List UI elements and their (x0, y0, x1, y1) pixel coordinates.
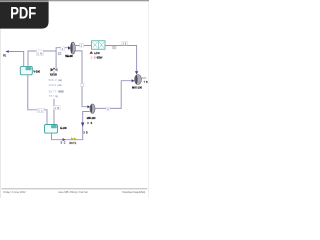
stream label smudge right of cooler (113, 46, 116, 49)
wire V-100 liquid out to E-100 top-left (28, 75, 47, 124)
air cooler AC-100 (92, 41, 106, 49)
stream label box 2 on tee feed (61, 47, 65, 51)
tee TEE-100 (70, 42, 75, 54)
svg-text:36.77: 36.77 (48, 90, 56, 94)
svg-text:577: 577 (49, 94, 54, 98)
wire V-100 vapor out to valve (28, 51, 56, 69)
mixer MIX-100 (135, 75, 142, 85)
svg-text:2L: 2L (38, 110, 43, 113)
svg-text:590.3: 590.3 (49, 78, 57, 82)
stream label box 2M (36, 50, 43, 55)
arrowhead into TEE-100 (68, 46, 71, 49)
svg-text:2B: 2B (55, 107, 60, 110)
valve VLV-100 (51, 68, 58, 72)
arrowhead into MIX-110 upper-left (87, 105, 90, 108)
stream label box 4 (106, 107, 110, 111)
energy stream arrow q-100 (90, 51, 94, 54)
wire TEE-100 top branch to cooler and MIX-100 (75, 46, 136, 72)
PDF badge (0, 0, 49, 29)
arrowhead into MIX-100 left (132, 79, 135, 82)
property table background (48, 76, 67, 99)
svg-text:2E: 2E (123, 43, 127, 46)
svg-text:3B: 3B (87, 122, 92, 125)
page background (0, 0, 149, 198)
wire E-100 outlet recycle to MIX-110 (52, 112, 90, 140)
svg-text:PDF: PDF (10, 4, 36, 23)
page top edge shadow (0, 0, 149, 1)
footer separator line (2, 188, 148, 191)
svg-text:Flowsheet: Case (Main): Flowsheet: Case (Main) (122, 190, 145, 194)
wire FG to V-100 top-left (9, 52, 24, 67)
exchanger E-100 (45, 125, 58, 134)
stream FG feed arrow (5, 50, 8, 53)
arrowhead into MIX-100 top (135, 71, 138, 74)
svg-text:E-100: E-100 (60, 127, 67, 130)
svg-text:MMSCFD: MMSCFD (58, 90, 64, 94)
page left edge (0, 0, 2, 198)
arrow marker on recycle riser (81, 123, 84, 127)
separator V-100 (20, 66, 32, 74)
svg-text:2M: 2M (37, 52, 42, 55)
wire valve outlet down to E-100 (53, 71, 55, 124)
svg-text:VLV-100: VLV-100 (50, 73, 57, 77)
stream label box 1 right of corner (58, 52, 61, 55)
page right edge (147, 0, 150, 198)
svg-text:3B: 3B (83, 132, 88, 135)
property table text (48, 78, 64, 98)
stream label box 3 (80, 44, 84, 48)
wire MIX-100 outlet (141, 77, 146, 79)
svg-text:RCY-1: RCY-1 (70, 142, 78, 145)
svg-text:1-E: 1-E (91, 56, 97, 59)
svg-text:V-100: V-100 (34, 71, 41, 74)
wire TEE-100 bottom branch to MIX-110 (75, 51, 87, 107)
wire MIX-110 outlet up to MIX-100 (95, 81, 132, 109)
svg-text:Friday, 3 June 2022: Friday, 3 June 2022 (3, 190, 26, 194)
wire tee feed (56, 48, 68, 51)
svg-text:3C: 3C (61, 142, 66, 145)
svg-text:TEE-100: TEE-100 (65, 55, 73, 58)
svg-text:FG: FG (3, 54, 6, 57)
svg-text:425 kW: 425 kW (96, 56, 103, 59)
arrow marker on recycle line (63, 138, 66, 141)
svg-text:kg: kg (55, 94, 58, 98)
svg-text:psig: psig (58, 78, 62, 82)
svg-text:psia: psia (58, 83, 62, 87)
svg-text:case MB: Mixing, final.hsc: case MB: Mixing, final.hsc (58, 190, 89, 194)
svg-text:120.0: 120.0 (49, 83, 57, 87)
svg-text:7B: 7B (144, 81, 148, 84)
stream label box 2B on valve outlet (54, 106, 61, 110)
stream label box 2L (37, 108, 44, 112)
stream label smudge on riser (81, 83, 84, 86)
stream label box 2E (122, 42, 127, 46)
mixer MIX-110 (90, 104, 95, 113)
svg-text:MIX-110: MIX-110 (87, 117, 96, 120)
svg-text:q-100: q-100 (94, 52, 100, 55)
recycle RCY-1 chevrons (71, 137, 76, 140)
svg-text:MIX-100: MIX-100 (132, 87, 143, 90)
